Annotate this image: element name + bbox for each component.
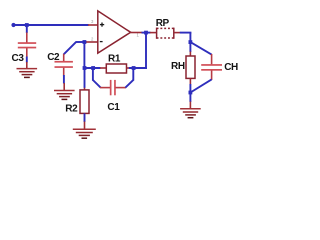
resistor R2 bottom lead: [84, 113, 86, 122]
capacitor C1 left lead: [100, 87, 110, 89]
wire diagonal to CH top: [190, 42, 211, 55]
resistor RP (dashed preset): [157, 28, 174, 39]
junction C3 tap: [25, 23, 29, 27]
ground under RH: [180, 102, 201, 118]
ground under C2: [54, 83, 75, 99]
svg-text:R2: R2: [65, 103, 78, 114]
capacitor C2 top lead: [63, 54, 65, 61]
capacitor C1 right lead: [116, 87, 127, 89]
junction rail/R2 node: [83, 66, 87, 70]
wire C2 diagonal to inverting node: [64, 42, 76, 54]
resistor RP right pin: [174, 32, 181, 34]
wire RH bottom to node: [189, 84, 191, 93]
wire node to ground: [189, 93, 191, 103]
svg-text:RH: RH: [171, 61, 185, 72]
wire C3 to ground: [26, 57, 28, 63]
capacitor C2 bottom lead: [63, 68, 65, 76]
resistor R1 left pin: [100, 67, 107, 69]
wire input to op-amp + pin: [14, 24, 89, 26]
junction output node: [144, 31, 148, 35]
resistor R1: [106, 64, 126, 73]
svg-text:C3: C3: [12, 53, 25, 64]
svg-text:RP: RP: [156, 18, 170, 29]
op-amp + symbol: [100, 23, 104, 27]
svg-text:C1: C1: [107, 102, 120, 113]
op-amp - symbol: [100, 41, 103, 43]
resistor RP left pin: [150, 32, 157, 34]
resistor R2: [80, 90, 89, 114]
op-amp output pin stub: [130, 32, 142, 34]
op-amp U1 + pin stub: [88, 24, 98, 26]
resistor RH top pin: [189, 52, 191, 57]
resistor R2 top pin: [84, 87, 86, 90]
wire C1 right vertical: [132, 68, 134, 81]
wire C1 right diagonal: [125, 80, 133, 88]
capacitor C3 top lead: [26, 33, 28, 43]
wire R2 top: [84, 68, 86, 88]
junction RH bottom / CH bottom node: [189, 91, 193, 95]
wire R1 right to corner: [129, 67, 147, 69]
op-amp U1: [98, 11, 131, 53]
wire diagonal CH bottom to RH bottom node: [190, 79, 211, 92]
wire inverting node down to feedback rail: [83, 42, 85, 69]
wire C1 left diagonal: [93, 80, 101, 88]
wire C3 branch: [26, 25, 28, 33]
capacitor CH top lead: [211, 54, 213, 64]
wire right corner down: [189, 33, 191, 52]
wire inverting input horizontal: [76, 41, 87, 43]
junction inverting node: [83, 40, 87, 44]
resistor RH: [186, 56, 195, 78]
capacitor C3: [18, 42, 36, 48]
wire feedback rail: [84, 67, 100, 69]
wire C2 to ground: [63, 75, 65, 84]
svg-text:CH: CH: [224, 62, 238, 73]
junction C1 left tap: [91, 66, 95, 70]
capacitor CH bottom lead: [211, 71, 213, 81]
capacitor CH: [201, 64, 222, 71]
junction CH top tap: [189, 40, 193, 44]
ground under C3: [17, 62, 38, 77]
wire C1 left vertical: [92, 68, 94, 81]
junction R1/C1 right node: [132, 66, 136, 70]
ground under R2: [73, 122, 96, 139]
capacitor C1: [110, 80, 116, 95]
resistor RH bottom pin: [189, 78, 191, 84]
capacitor C2: [55, 61, 73, 68]
wire output node down: [145, 33, 147, 69]
resistor R1 right pin: [127, 67, 130, 69]
wire RP to right corner: [180, 32, 192, 34]
capacitor C3 bottom lead: [26, 48, 28, 57]
wire op-amp output: [142, 32, 151, 34]
node IN terminal dot: [11, 23, 15, 27]
op-amp U1 - pin stub: [86, 41, 97, 43]
svg-text:R1: R1: [108, 54, 121, 65]
